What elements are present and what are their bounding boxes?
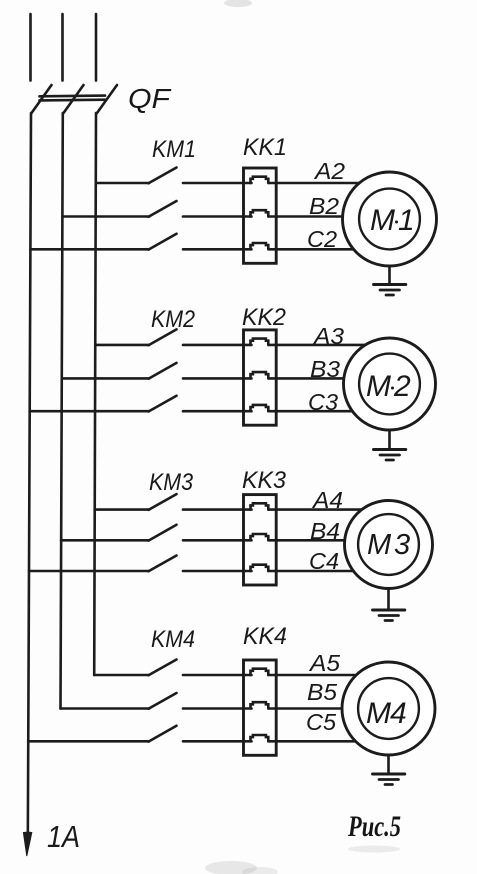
svg-text:4: 4 — [390, 697, 407, 730]
svg-text:C2: C2 — [307, 226, 337, 252]
svg-text:KK4: KK4 — [243, 623, 287, 650]
svg-text:2: 2 — [393, 370, 411, 403]
svg-text:KM4: KM4 — [151, 626, 195, 653]
svg-text:B4: B4 — [310, 518, 340, 544]
svg-text:B2: B2 — [309, 193, 339, 219]
svg-text:A2: A2 — [313, 158, 345, 184]
svg-text:KK2: KK2 — [242, 304, 286, 331]
svg-text:QF: QF — [128, 83, 172, 114]
svg-text:Рис.5: Рис.5 — [347, 810, 401, 843]
svg-text:B3: B3 — [310, 356, 340, 382]
svg-text:3: 3 — [394, 529, 410, 561]
svg-text:1: 1 — [398, 204, 415, 237]
svg-text:A4: A4 — [311, 487, 343, 513]
svg-text:KK1: KK1 — [243, 134, 287, 161]
svg-text:C3: C3 — [308, 389, 338, 415]
svg-text:C4: C4 — [309, 548, 339, 574]
svg-text:B5: B5 — [307, 679, 338, 705]
svg-text:C5: C5 — [306, 709, 337, 735]
svg-text:M: M — [366, 697, 391, 730]
svg-text:KM1: KM1 — [152, 136, 196, 163]
svg-text:M: M — [367, 529, 392, 561]
svg-text:A3: A3 — [312, 323, 344, 349]
svg-text:1A: 1A — [47, 819, 80, 854]
svg-text:A5: A5 — [308, 650, 341, 676]
svg-text:M: M — [366, 370, 391, 403]
svg-text:M: M — [370, 204, 395, 237]
svg-text:KK3: KK3 — [242, 467, 286, 494]
svg-text:KM3: KM3 — [149, 469, 193, 496]
svg-text:KM2: KM2 — [151, 306, 195, 333]
